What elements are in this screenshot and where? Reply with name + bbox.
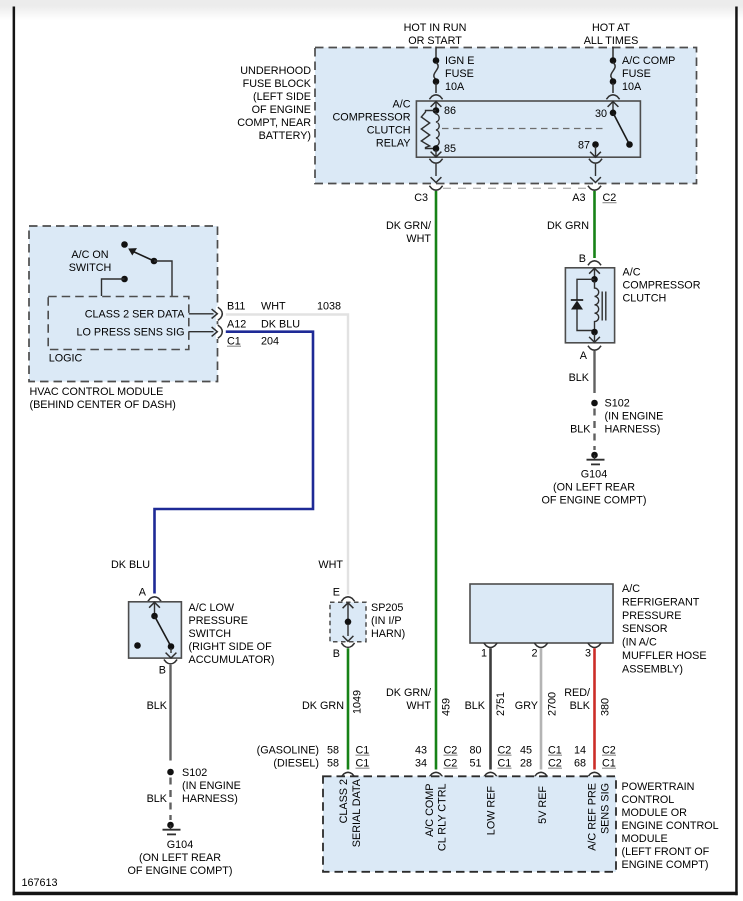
svg-text:FUSE: FUSE bbox=[445, 68, 474, 80]
svg-text:A/C LOW: A/C LOW bbox=[189, 602, 235, 614]
sensor pin 3 cup bbox=[588, 643, 601, 647]
splice SP205 (dashed box) bbox=[330, 602, 366, 642]
connector label C2 bbox=[603, 192, 617, 204]
clutch coil core lines bbox=[602, 292, 606, 321]
svg-text:43: 43 bbox=[415, 745, 427, 757]
label: UNDERHOOD FUSE BLOCK location bbox=[237, 65, 312, 142]
SP205 exit arrow bbox=[347, 624, 349, 636]
svg-text:SENS SIG: SENS SIG bbox=[600, 783, 612, 834]
wire 87 to fuse block edge bbox=[595, 164, 597, 176]
pin numbers for 5V REF wire bbox=[520, 745, 562, 770]
svg-text:2751: 2751 bbox=[495, 692, 507, 716]
splice S102 (right) bbox=[591, 400, 598, 407]
wire from HOT AT ALL TIMES feed bbox=[612, 47, 614, 59]
relay switch blade 30-87 bbox=[613, 113, 630, 145]
wire DK GRN 1049 (SP205 B to PCM) bbox=[347, 648, 350, 769]
svg-text:51: 51 bbox=[469, 758, 481, 770]
svg-text:(BEHIND CENTER OF DASH): (BEHIND CENTER OF DASH) bbox=[30, 399, 176, 411]
svg-text:HARN): HARN) bbox=[371, 628, 405, 640]
connector cap at PCM pin (low ref) bbox=[484, 772, 497, 776]
connector label C1 bbox=[227, 336, 241, 348]
svg-text:(LEFT FRONT OF: (LEFT FRONT OF bbox=[622, 846, 710, 858]
pressure switch blade bbox=[155, 616, 172, 647]
svg-text:380: 380 bbox=[600, 698, 612, 716]
label: SP205 IN I/P HARN bbox=[371, 602, 405, 640]
svg-text:DK GRN: DK GRN bbox=[547, 220, 589, 232]
ground G104 (left) bbox=[163, 822, 181, 835]
relay coil inductor bbox=[436, 112, 439, 148]
svg-text:LOGIC: LOGIC bbox=[49, 353, 83, 365]
clutch pin B entry arrow bbox=[589, 268, 600, 273]
svg-text:COMPT, NEAR: COMPT, NEAR bbox=[237, 117, 311, 129]
wire label RED/BLK bbox=[564, 687, 591, 712]
svg-text:58: 58 bbox=[327, 745, 339, 757]
svg-text:B: B bbox=[159, 665, 166, 677]
HVAC control module (dashed box) bbox=[29, 226, 218, 382]
svg-text:MUFFLER HOSE: MUFFLER HOSE bbox=[622, 650, 707, 662]
svg-text:A/C: A/C bbox=[393, 99, 411, 111]
svg-text:1038: 1038 bbox=[317, 301, 341, 313]
connector cap at SP205 pin E bbox=[341, 597, 354, 601]
A/C ON switch blade with arrow bbox=[128, 248, 157, 264]
svg-text:(IN ENGINE: (IN ENGINE bbox=[182, 780, 241, 792]
svg-text:PRESSURE: PRESSURE bbox=[622, 610, 681, 622]
clutch coil bottom node bbox=[591, 329, 598, 336]
svg-text:COMPRESSOR: COMPRESSOR bbox=[333, 112, 411, 124]
svg-text:RELAY: RELAY bbox=[376, 138, 411, 150]
svg-text:FUSE: FUSE bbox=[622, 68, 651, 80]
svg-text:B: B bbox=[579, 253, 586, 265]
svg-text:MODULE OR: MODULE OR bbox=[622, 807, 688, 819]
svg-text:(RIGHT SIDE OF: (RIGHT SIDE OF bbox=[189, 641, 273, 653]
connector cap at relay pin 86 socket bbox=[429, 95, 442, 99]
svg-text:5V REF: 5V REF bbox=[537, 786, 549, 824]
wire GRY 2700 (sensor 2 to PCM) bbox=[540, 648, 543, 769]
connector cap at PCM pin (class 2 serial data) bbox=[341, 772, 354, 776]
svg-text:A/C ON: A/C ON bbox=[71, 249, 108, 261]
splice S102 (left) bbox=[167, 769, 174, 776]
svg-text:MODULE: MODULE bbox=[622, 833, 668, 845]
svg-text:1: 1 bbox=[481, 648, 487, 660]
A/C ON switch lower contact node bbox=[121, 276, 128, 283]
svg-text:HOT IN RUN: HOT IN RUN bbox=[404, 22, 467, 34]
svg-text:G104: G104 bbox=[167, 839, 193, 851]
relay pin 30 node bbox=[610, 110, 617, 117]
connector cap at PCM pin (a/c ref pre sens sig) bbox=[588, 772, 601, 776]
svg-text:CONTROL: CONTROL bbox=[622, 794, 675, 806]
svg-text:(LEFT SIDE: (LEFT SIDE bbox=[253, 91, 311, 103]
svg-text:SWITCH: SWITCH bbox=[69, 262, 112, 274]
connector cap at PCM pin (a/c comp cl rly ctrl) bbox=[429, 772, 442, 776]
feed label HOT IN RUN OR START bbox=[404, 22, 467, 47]
logic box (dashed) bbox=[48, 297, 189, 350]
svg-text:ENGINE COMPT): ENGINE COMPT) bbox=[622, 859, 709, 871]
svg-text:(ON LEFT REAR: (ON LEFT REAR bbox=[139, 852, 221, 864]
wire BLK dashed (S102 to G104 right) bbox=[593, 409, 595, 451]
svg-text:80: 80 bbox=[469, 745, 481, 757]
pin function label: A/C COMP CL RLY CTRL (rotated) bbox=[424, 784, 449, 852]
ground G104 (right) bbox=[587, 452, 605, 465]
wire from HOT IN RUN feed bbox=[435, 47, 437, 59]
wire BLK (switch B to S102) bbox=[169, 665, 171, 761]
svg-text:DK GRN/: DK GRN/ bbox=[386, 687, 431, 699]
svg-text:OF ENGINE COMPT): OF ENGINE COMPT) bbox=[128, 865, 233, 877]
A/C refrigerant pressure sensor box bbox=[470, 584, 613, 643]
pin numbers for CLASS 2 SERIAL DATA wire bbox=[327, 745, 370, 770]
label: POWERTRAIN CONTROL MODULE OR ENGINE CONTROL MODULE bbox=[622, 781, 719, 871]
pin numbers for A/C COMP CL RLY CTRL wire bbox=[415, 745, 458, 770]
svg-text:SWITCH: SWITCH bbox=[189, 628, 232, 640]
svg-text:POWERTRAIN: POWERTRAIN bbox=[622, 781, 695, 793]
connector cup pin A12 bbox=[218, 325, 222, 338]
switch pin B exit arrow bbox=[170, 648, 172, 653]
clutch flyback diode bbox=[571, 279, 595, 330]
connector cup at switch pin B bbox=[164, 660, 177, 664]
svg-text:HARNESS): HARNESS) bbox=[605, 424, 661, 436]
svg-text:HARNESS): HARNESS) bbox=[182, 793, 238, 805]
svg-text:HOT AT: HOT AT bbox=[592, 22, 630, 34]
wire WHT 1038 (B11 to SP205) bbox=[226, 315, 348, 595]
svg-text:ASSEMBLY): ASSEMBLY) bbox=[622, 664, 683, 676]
switch pin A entry arrow bbox=[149, 602, 160, 607]
svg-text:DK BLU: DK BLU bbox=[261, 319, 300, 331]
svg-text:G104: G104 bbox=[581, 469, 607, 481]
svg-text:DK BLU: DK BLU bbox=[111, 559, 150, 571]
svg-text:ENGINE CONTROL: ENGINE CONTROL bbox=[622, 820, 719, 832]
relay socket cup pin 87 side bbox=[589, 159, 602, 163]
svg-text:85: 85 bbox=[444, 143, 456, 155]
svg-text:A12: A12 bbox=[227, 319, 246, 331]
svg-text:(IN ENGINE: (IN ENGINE bbox=[605, 411, 664, 423]
label: A/C COMPRESSOR CLUTCH bbox=[623, 267, 701, 305]
svg-text:204: 204 bbox=[261, 336, 279, 348]
relay pin 85 exit arrow bbox=[435, 150, 437, 156]
wire from switch blade to logic box bbox=[154, 261, 172, 296]
svg-text:10A: 10A bbox=[622, 81, 642, 93]
low pressure sensor signal output arrow bbox=[189, 327, 218, 336]
svg-text:SENSOR: SENSOR bbox=[622, 623, 668, 635]
svg-text:DK GRN/: DK GRN/ bbox=[386, 220, 431, 232]
underhood fuse block (dashed box) bbox=[315, 48, 697, 184]
connector cup at clutch pin A bbox=[588, 346, 601, 350]
svg-text:B: B bbox=[333, 648, 340, 660]
SP205 entry arrow bbox=[343, 603, 354, 608]
svg-text:CLUTCH: CLUTCH bbox=[623, 293, 667, 305]
clutch pin A exit arrow bbox=[594, 334, 596, 342]
connector cap at clutch pin B bbox=[588, 261, 601, 265]
svg-text:OF ENGINE COMPT): OF ENGINE COMPT) bbox=[542, 495, 647, 507]
svg-text:A/C: A/C bbox=[623, 267, 641, 279]
svg-text:BLK: BLK bbox=[465, 700, 486, 712]
svg-text:BLK: BLK bbox=[569, 372, 590, 384]
PCM / ECM module (dashed box) bbox=[323, 776, 616, 872]
svg-text:A/C: A/C bbox=[622, 583, 640, 595]
svg-text:COMPRESSOR: COMPRESSOR bbox=[623, 280, 701, 292]
svg-text:CLASS 2: CLASS 2 bbox=[338, 779, 350, 823]
svg-text:GRY: GRY bbox=[515, 700, 538, 712]
SP205 splice node bbox=[345, 619, 352, 626]
svg-text:WHT: WHT bbox=[318, 559, 343, 571]
pin function label: CLASS 2 SERIAL DATA (rotated) bbox=[338, 778, 363, 847]
fuse block connector face (light dashed) bbox=[443, 187, 589, 189]
wire DK GRN (connector A3 to clutch B) bbox=[593, 191, 596, 258]
connector cap at switch pin A bbox=[148, 597, 161, 601]
svg-text:IGN E: IGN E bbox=[445, 55, 474, 67]
A/C low pressure switch box bbox=[129, 602, 182, 658]
label: A/C ON SWITCH bbox=[69, 249, 112, 274]
svg-text:CLASS 2 SER DATA: CLASS 2 SER DATA bbox=[85, 309, 186, 321]
svg-text:459: 459 bbox=[441, 698, 453, 716]
svg-text:LO PRESS SENS SIG: LO PRESS SENS SIG bbox=[76, 327, 184, 339]
svg-text:SERIAL DATA: SERIAL DATA bbox=[351, 778, 363, 847]
svg-text:CLUTCH: CLUTCH bbox=[367, 125, 411, 137]
svg-text:2700: 2700 bbox=[547, 692, 559, 716]
svg-text:C3: C3 bbox=[414, 192, 428, 204]
label: S102 IN ENGINE HARNESS (right) bbox=[605, 398, 664, 436]
svg-text:28: 28 bbox=[520, 758, 532, 770]
svg-text:HVAC CONTROL MODULE: HVAC CONTROL MODULE bbox=[30, 386, 164, 398]
relay coil resistor (parallel) bbox=[421, 111, 436, 149]
clutch coil top node bbox=[591, 276, 598, 283]
label: A/C COMPRESSOR CLUTCH RELAY bbox=[333, 99, 411, 150]
connector cup pin B11 bbox=[218, 307, 222, 320]
class 2 serial data output arrow bbox=[189, 309, 218, 318]
svg-text:45: 45 bbox=[520, 745, 532, 757]
pin exit slots on HVAC border bbox=[216, 307, 219, 340]
svg-text:SP205: SP205 bbox=[371, 602, 403, 614]
svg-text:REFRIGERANT: REFRIGERANT bbox=[622, 597, 700, 609]
svg-text:A: A bbox=[139, 587, 147, 599]
svg-text:A: A bbox=[580, 350, 588, 362]
svg-text:ACCUMULATOR): ACCUMULATOR) bbox=[189, 654, 275, 666]
svg-text:(ON LEFT REAR: (ON LEFT REAR bbox=[553, 482, 635, 494]
label: A/C LOW PRESSURE SWITCH location bbox=[189, 602, 275, 666]
svg-text:30: 30 bbox=[595, 108, 607, 120]
svg-text:FUSE BLOCK: FUSE BLOCK bbox=[243, 78, 312, 90]
wire RED/BLK 380 (sensor 3 to PCM) bbox=[593, 648, 596, 769]
svg-text:WHT: WHT bbox=[406, 233, 431, 245]
relay pin 85 node bbox=[433, 145, 440, 152]
relay pin 30 entry arrow bbox=[608, 102, 619, 107]
relay pin 86 node bbox=[433, 107, 440, 114]
svg-text:14: 14 bbox=[574, 745, 586, 757]
svg-text:BATTERY): BATTERY) bbox=[259, 130, 311, 142]
sensor pin 2 cup bbox=[534, 643, 547, 647]
wire from logic box to lower contact bbox=[102, 279, 125, 296]
relay pin 86 entry arrow bbox=[431, 102, 442, 107]
A/C compressor clutch box bbox=[565, 268, 614, 343]
connector A3/C2 cup bbox=[588, 186, 601, 190]
svg-text:BLK: BLK bbox=[570, 424, 591, 436]
wire label DK GRN/WHT (lower) bbox=[386, 687, 431, 712]
label: G104 ON LEFT REAR OF ENGINE COMPT bbox=[128, 839, 233, 877]
svg-text:S102: S102 bbox=[605, 398, 630, 410]
label: HVAC CONTROL MODULE bbox=[30, 386, 176, 411]
clutch coil winding bbox=[595, 281, 599, 330]
svg-text:LOW REF: LOW REF bbox=[486, 786, 498, 836]
relay socket cup pin 85 side bbox=[429, 159, 442, 163]
svg-text:B11: B11 bbox=[227, 301, 245, 313]
svg-text:68: 68 bbox=[574, 758, 586, 770]
svg-text:OR START: OR START bbox=[408, 35, 462, 47]
svg-text:(IN A/C: (IN A/C bbox=[622, 637, 657, 649]
svg-text:ALL TIMES: ALL TIMES bbox=[584, 35, 639, 47]
label: S102 IN ENGINE HARNESS bbox=[182, 767, 241, 805]
connector cap at PCM pin (5v ref) bbox=[534, 772, 547, 776]
connector C3 cup bbox=[429, 186, 442, 190]
svg-text:E: E bbox=[333, 587, 340, 599]
svg-text:A/C COMP: A/C COMP bbox=[622, 55, 675, 67]
wire DK GRN/WHT (connector C3 to PCM) bbox=[435, 191, 438, 770]
fuse A/C COMP FUSE 10A bbox=[610, 55, 676, 93]
wire DK BLU 204 (A12 to pressure switch) bbox=[155, 332, 314, 594]
connector cap at relay pin 30 socket bbox=[606, 95, 619, 99]
svg-text:BLK: BLK bbox=[147, 793, 168, 805]
svg-text:(IN I/P: (IN I/P bbox=[371, 615, 402, 627]
label: A/C REFRIGERANT PRESSURE SENSOR location bbox=[622, 583, 707, 676]
connector cup at SP205 pin B bbox=[341, 643, 354, 647]
svg-text:RED/: RED/ bbox=[564, 687, 590, 699]
svg-text:(DIESEL): (DIESEL) bbox=[273, 758, 319, 770]
svg-text:BLK: BLK bbox=[570, 700, 591, 712]
svg-text:DK GRN: DK GRN bbox=[302, 700, 344, 712]
relay pin 87 node bbox=[592, 141, 599, 148]
pin function label: A/C REF PRE SENS SIG (rotated) bbox=[587, 783, 612, 851]
svg-text:3: 3 bbox=[585, 648, 591, 660]
svg-text:S102: S102 bbox=[182, 767, 207, 779]
svg-text:WHT: WHT bbox=[406, 700, 431, 712]
label: G104 ON LEFT REAR OF ENGINE COMPT (right) bbox=[542, 469, 647, 507]
relay pin 87 exit arrow bbox=[595, 146, 597, 156]
feed label HOT AT ALL TIMES bbox=[584, 22, 639, 47]
svg-text:A3: A3 bbox=[572, 192, 585, 204]
svg-text:UNDERHOOD: UNDERHOOD bbox=[240, 65, 311, 77]
svg-text:WHT: WHT bbox=[261, 301, 286, 313]
sensor pin 1 cup bbox=[484, 643, 497, 647]
svg-text:2: 2 bbox=[531, 648, 537, 660]
relay mechanical link (dashed) bbox=[442, 128, 607, 130]
svg-text:34: 34 bbox=[415, 758, 427, 770]
svg-text:A/C COMP: A/C COMP bbox=[424, 784, 436, 837]
svg-text:86: 86 bbox=[444, 105, 456, 117]
A/C ON switch contact node (top) bbox=[121, 241, 128, 248]
wire label DK GRN/WHT (upper) bbox=[386, 220, 431, 245]
wire BLK (clutch A to S102) bbox=[593, 351, 595, 393]
svg-text:OF ENGINE: OF ENGINE bbox=[252, 104, 311, 116]
svg-text:A/C REF PRE: A/C REF PRE bbox=[587, 783, 599, 851]
svg-text:167613: 167613 bbox=[22, 877, 58, 889]
svg-text:(GASOLINE): (GASOLINE) bbox=[257, 745, 319, 757]
pin numbers for A/C REF PRE SENS SIG wire bbox=[574, 745, 616, 770]
svg-text:BLK: BLK bbox=[147, 700, 168, 712]
svg-text:10A: 10A bbox=[445, 81, 465, 93]
wire BLK 2751 (sensor 1 to PCM) bbox=[489, 648, 492, 769]
pin numbers for LOW REF wire bbox=[469, 745, 511, 770]
fuse IGN E FUSE 10A bbox=[433, 55, 475, 93]
unused contact node bbox=[134, 642, 141, 649]
svg-text:PRESSURE: PRESSURE bbox=[189, 615, 248, 627]
svg-text:87: 87 bbox=[578, 140, 590, 152]
switch input node bbox=[151, 613, 158, 620]
relay box: A/C compressor clutch relay bbox=[416, 101, 640, 157]
wire 85 to fuse block edge bbox=[435, 164, 437, 176]
wire BLK dashed (S102 to G104) bbox=[169, 778, 171, 821]
svg-text:1049: 1049 bbox=[352, 690, 364, 714]
svg-text:58: 58 bbox=[327, 758, 339, 770]
svg-text:CL RLY CTRL: CL RLY CTRL bbox=[437, 784, 449, 852]
